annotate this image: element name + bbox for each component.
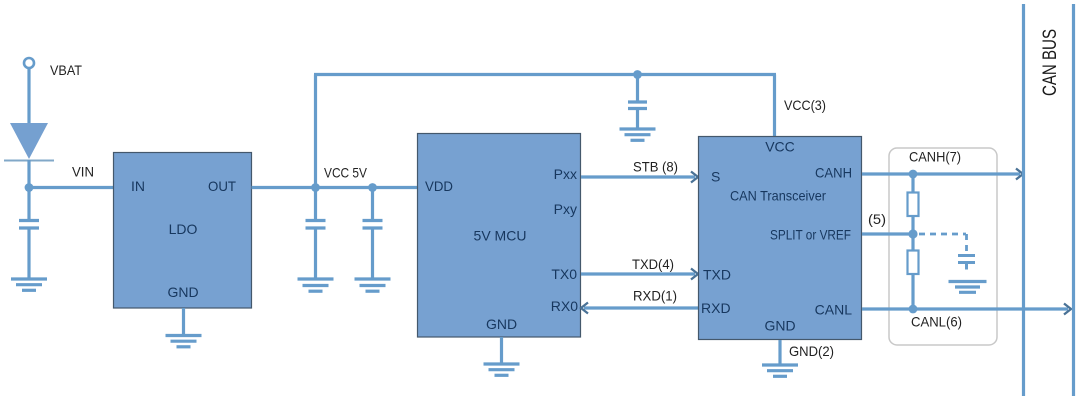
svg-text:TXD(4): TXD(4) <box>632 256 674 272</box>
svg-text:S: S <box>711 169 720 185</box>
svg-text:RX0: RX0 <box>551 298 578 314</box>
svg-text:RXD(1): RXD(1) <box>633 288 677 304</box>
CAN transceiver U3 box <box>699 137 862 340</box>
wire CAN bus line 2 <box>1072 4 1075 396</box>
node junction 1 <box>311 183 320 192</box>
resistor R1 <box>908 193 919 217</box>
wire STB Pxx to S <box>581 175 695 178</box>
svg-text:(5): (5) <box>868 211 886 227</box>
terminal VBAT <box>24 58 34 68</box>
wire dashed SPLIT to capacitor <box>919 234 967 253</box>
svg-text:GND: GND <box>764 318 795 334</box>
svg-text:STB (8): STB (8) <box>633 159 678 175</box>
svg-text:CANH(7): CANH(7) <box>909 149 961 165</box>
wire LDO GND stem <box>182 308 185 336</box>
svg-text:CAN BUS: CAN BUS <box>1040 29 1061 96</box>
wire CANL to bus <box>862 307 1068 310</box>
capacitor C4 <box>628 75 647 130</box>
ground (LDO) <box>166 336 202 347</box>
wire CAN bus line 1 <box>1022 4 1025 396</box>
svg-text:TXD: TXD <box>703 267 731 283</box>
wire SPLIT to node <box>862 232 913 235</box>
arrowhead CANH <box>1016 169 1023 180</box>
svg-text:IN: IN <box>131 178 145 194</box>
wire transceiver GND stem <box>778 340 781 365</box>
svg-text:VCC: VCC <box>765 139 795 155</box>
node junction top rail <box>633 70 642 79</box>
wire MCU GND stem <box>500 337 503 364</box>
svg-text:LDO: LDO <box>169 221 198 237</box>
ground (C3) <box>355 279 391 291</box>
wire CANH node to R1 <box>911 174 914 193</box>
svg-text:RXD: RXD <box>701 300 731 316</box>
wire TXD TX0 to TXD <box>581 272 695 275</box>
svg-text:VIN: VIN <box>72 164 94 180</box>
diode D1 <box>10 123 48 159</box>
node VIN junction <box>25 183 34 192</box>
svg-text:Pxx: Pxx <box>554 166 577 182</box>
svg-text:5V MCU: 5V MCU <box>474 228 527 244</box>
termination network box <box>889 148 997 345</box>
arrowhead CANL <box>1064 304 1071 315</box>
capacitor C3 <box>363 188 383 280</box>
node junction 2 <box>368 183 377 192</box>
ground (C5) <box>949 282 987 293</box>
svg-text:OUT: OUT <box>208 178 236 194</box>
svg-text:VDD: VDD <box>425 178 453 194</box>
ground (transceiver) <box>762 365 798 376</box>
wire R2 to CANL node <box>911 274 914 309</box>
capacitor C2 <box>306 188 326 280</box>
capacitor C1 <box>19 221 39 280</box>
capacitor C5 <box>958 256 975 270</box>
wire R1 to SPLIT node <box>911 216 914 251</box>
wire riser to top rail <box>314 75 317 188</box>
wire diode to VIN node <box>27 160 30 220</box>
svg-text:TX0: TX0 <box>551 266 577 282</box>
wire riser down to transceiver VCC <box>773 75 776 137</box>
svg-text:VCC(3): VCC(3) <box>784 97 826 113</box>
node SPLIT junction <box>908 229 917 238</box>
wire top rail VCC <box>314 73 776 76</box>
svg-text:CANL(6): CANL(6) <box>911 314 962 330</box>
svg-text:GND: GND <box>167 284 198 300</box>
ground (C1) <box>11 279 47 290</box>
MCU U2 box <box>418 134 581 338</box>
svg-text:GND: GND <box>486 316 517 332</box>
svg-text:CANL: CANL <box>815 302 853 318</box>
arrowhead STB <box>691 172 698 183</box>
ground (MCU) <box>484 364 520 375</box>
wire CANH to bus <box>862 172 1020 175</box>
arrowhead TXD <box>691 269 698 280</box>
svg-text:CANH: CANH <box>815 165 852 181</box>
ground (C2) <box>298 279 334 291</box>
svg-text:CAN Transceiver: CAN Transceiver <box>730 188 826 204</box>
svg-text:Pxy: Pxy <box>554 201 577 217</box>
diode cathode bar <box>4 160 54 162</box>
arrowhead RXD <box>581 303 588 314</box>
wire RXD to RX0 <box>584 306 698 309</box>
svg-text:GND(2): GND(2) <box>789 343 834 359</box>
node CANH junction <box>909 170 918 179</box>
svg-text:VBAT: VBAT <box>50 62 82 78</box>
LDO U1 box <box>114 153 252 309</box>
svg-text:VCC 5V: VCC 5V <box>324 165 368 181</box>
ground (C4) <box>620 129 656 140</box>
wire VBAT to diode <box>27 68 30 124</box>
svg-text:SPLIT or VREF: SPLIT or VREF <box>770 227 851 243</box>
node CANL junction <box>909 305 918 314</box>
wire VIN node to LDO IN <box>29 186 114 189</box>
resistor R2 <box>908 251 919 275</box>
wire LDO OUT to MCU VDD <box>252 186 418 189</box>
